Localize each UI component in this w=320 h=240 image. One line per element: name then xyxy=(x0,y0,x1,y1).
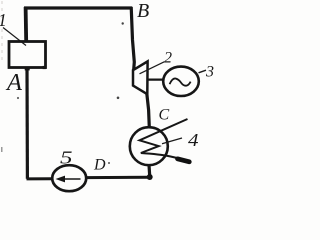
svg-text:4: 4 xyxy=(188,130,199,150)
svg-text:B: B xyxy=(137,0,149,22)
pump arrow shaft xyxy=(59,178,81,180)
speck near turbine outlet xyxy=(117,97,120,100)
svg-text:2: 2 xyxy=(164,50,172,67)
leader line to boiler xyxy=(3,28,26,46)
wire condenser to bottom xyxy=(147,165,151,177)
wire bottom left horizontal xyxy=(27,177,53,180)
border (faint left edge of scanned figure) xyxy=(1,1,3,60)
generator sine wave xyxy=(170,78,191,85)
wire right vertical to turbine xyxy=(131,7,134,71)
condenser cooling pipe zigzag xyxy=(140,119,188,153)
wire turbine to generator xyxy=(148,78,165,80)
svg-text:1: 1 xyxy=(0,10,7,30)
leader line to 3 xyxy=(199,70,207,73)
svg-text:3: 3 xyxy=(205,64,214,81)
svg-text:C: C xyxy=(159,107,170,124)
generator G (ellipse) xyxy=(163,67,199,96)
speck near right wire xyxy=(122,22,124,24)
boiler B1 (rectangle) xyxy=(9,42,46,68)
condenser cooling outlet pipe xyxy=(141,153,184,160)
wire bottom right horizontal xyxy=(86,176,151,179)
condenser 4 (circle) xyxy=(130,127,168,165)
pump arrowhead xyxy=(56,176,66,183)
cooling outlet arrowhead xyxy=(178,159,190,162)
turbine 2 (trapezoid) xyxy=(133,61,148,94)
svg-text:D: D xyxy=(93,157,106,174)
svg-text:A: A xyxy=(5,69,23,96)
pump 5 (ellipse) xyxy=(52,165,86,191)
junction bottom right xyxy=(147,174,153,180)
leader line to condenser xyxy=(162,138,182,144)
speck after D xyxy=(108,162,110,164)
wire joint below boiler xyxy=(25,67,30,70)
speck left edge xyxy=(1,147,3,152)
wire left vertical xyxy=(25,67,29,179)
wire turbine down to condenser xyxy=(147,94,150,128)
wire boiler top stub xyxy=(24,7,28,42)
speck below boiler xyxy=(17,97,19,99)
wire top horizontal xyxy=(24,6,132,9)
leader line to turbine xyxy=(140,62,165,74)
boiler corner blob xyxy=(43,66,46,69)
